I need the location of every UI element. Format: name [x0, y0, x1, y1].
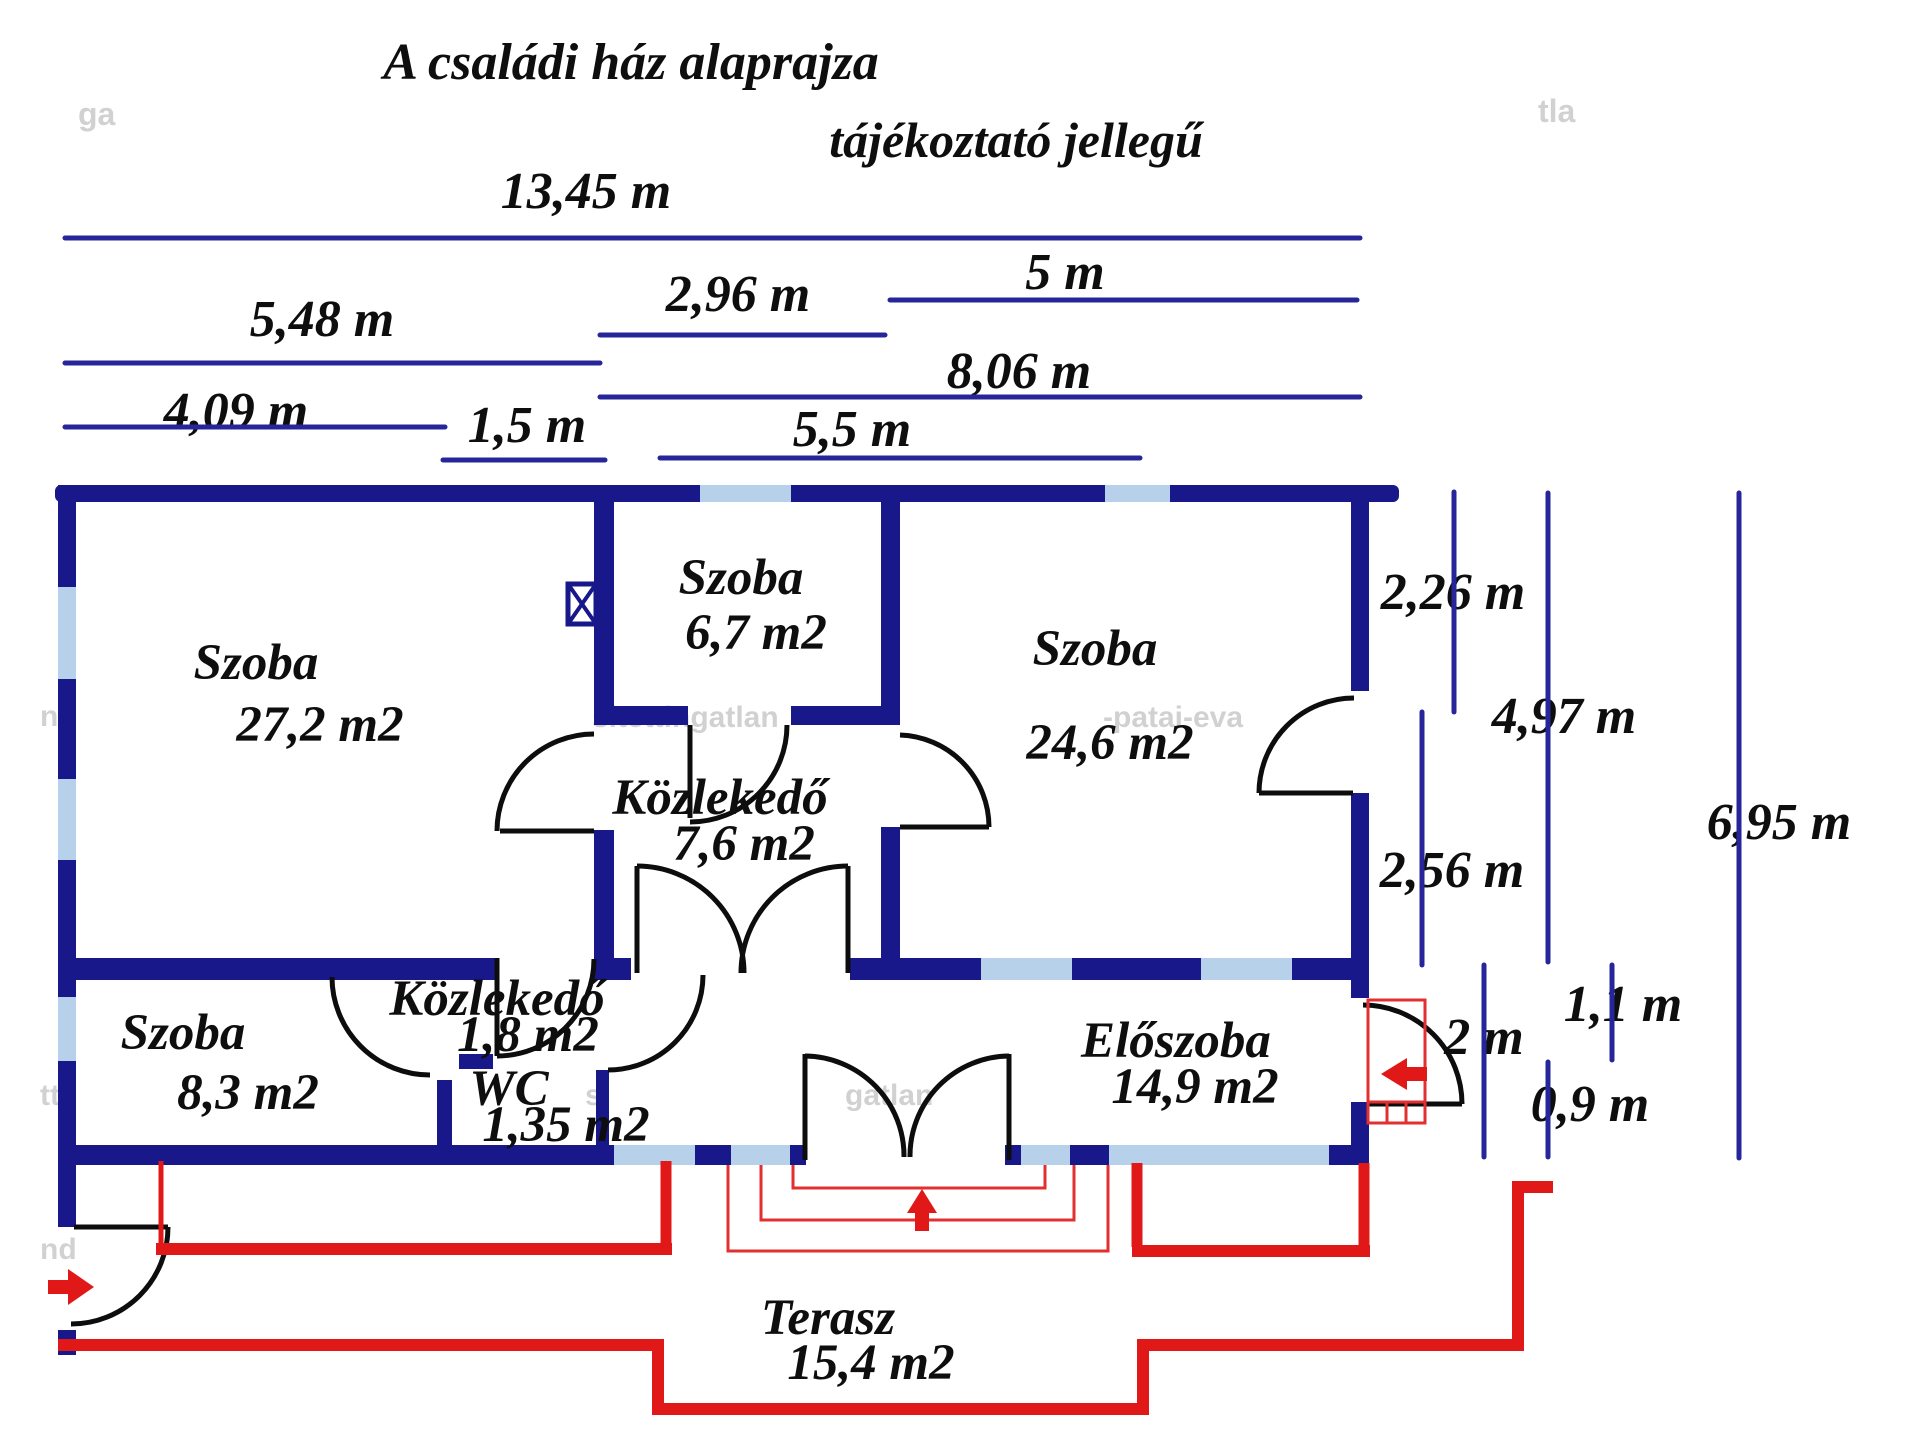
- door D2 Szoba 6,7 arc: [690, 725, 787, 822]
- door D8 Szoba 8,3 arc: [332, 977, 430, 1075]
- arrow entry left-pointing: [1381, 1058, 1427, 1090]
- arrow terrace right-pointing: [48, 1269, 94, 1305]
- svg-text:1,1 m: 1,1 m: [1564, 976, 1682, 1033]
- door D5 entry arc: [1363, 1005, 1462, 1104]
- wall divider left (27,2 / 8,3): [58, 958, 496, 980]
- wall 27,2 | 7,6 lower: [594, 830, 614, 958]
- wall right lower: [1351, 1102, 1369, 1165]
- door D4 right wall upper leaf: [1259, 791, 1353, 796]
- dimension 2,26 m line: [1452, 492, 1457, 712]
- door D9 double door left arc: [637, 866, 744, 973]
- door D5 entry leaf: [1368, 1102, 1462, 1107]
- window top-2: [1105, 485, 1170, 502]
- svg-text:5,5 m: 5,5 m: [793, 401, 911, 458]
- door D1 Szoba 27,2 leaf: [500, 829, 594, 834]
- dimension 5 m line: [890, 298, 1357, 303]
- dimension 1,1 m line: [1610, 965, 1615, 1060]
- door D7 corridor-WC arc: [608, 975, 703, 1070]
- door D4 right wall upper arc: [1259, 698, 1354, 793]
- window 24,6 bottom-2: [1201, 958, 1292, 980]
- door D9 double door right arc: [741, 866, 848, 973]
- svg-text:5,48 m: 5,48 m: [250, 291, 394, 348]
- svg-text:Szoba: Szoba: [121, 1005, 246, 1061]
- window bottom-2: [731, 1145, 790, 1165]
- wall right middle: [1351, 793, 1369, 998]
- wall top: [55, 485, 1399, 502]
- wall 24,6 bottom right: [1292, 958, 1369, 980]
- wall bottom stub-2: [1070, 1145, 1109, 1165]
- wall left lower stub: [58, 1330, 76, 1355]
- dimension 5,48 m line: [65, 361, 600, 366]
- porch left thin line: [159, 1161, 164, 1246]
- svg-text:2,56 m: 2,56 m: [1379, 842, 1524, 899]
- svg-text:4,09 m: 4,09 m: [163, 383, 308, 440]
- wall right upper: [1351, 485, 1369, 691]
- door D6 divider leaf: [495, 958, 500, 1056]
- svg-text:4,97 m: 4,97 m: [1491, 688, 1636, 745]
- svg-text:5 m: 5 m: [1025, 244, 1104, 301]
- door D10 entrance left leaf: [803, 1054, 808, 1160]
- steps entrance U3: [728, 1165, 1108, 1251]
- window left-1: [58, 587, 76, 679]
- wall divider right / Szoba 24,6 bottom: [850, 958, 981, 980]
- wall bottom segment left: [58, 1145, 614, 1165]
- dimension 0,9 m line: [1546, 1062, 1551, 1157]
- porch right bottom: [1132, 1245, 1370, 1257]
- dimension 4,09 m line: [65, 425, 445, 430]
- window symbol X-box: [568, 584, 596, 624]
- door D10 entrance right leaf: [1007, 1054, 1012, 1160]
- door D9 double door left leaf: [635, 866, 640, 973]
- wall 6,7 bottom left: [606, 706, 688, 725]
- svg-text:nd: nd: [40, 1233, 77, 1266]
- dimension 2,96 m line: [600, 333, 885, 338]
- wall 6,7 bottom right: [791, 706, 891, 725]
- svg-text:8,06 m: 8,06 m: [947, 343, 1091, 400]
- wall bottom jamb right: [1005, 1145, 1021, 1165]
- svg-text:1,8 m2: 1,8 m2: [457, 1007, 599, 1063]
- svg-text:14,9 m2: 14,9 m2: [1111, 1059, 1278, 1115]
- svg-text:ga: ga: [78, 96, 116, 132]
- wall WC left: [437, 1080, 452, 1145]
- svg-text:A családi ház alaprajza: A családi ház alaprajza: [380, 34, 879, 91]
- wall 24,6 bottom mid: [1072, 958, 1201, 980]
- wall WC right: [596, 1070, 609, 1145]
- porch right right side: [1359, 1163, 1370, 1247]
- svg-text:tájékoztató jellegű: tájékoztató jellegű: [829, 112, 1205, 168]
- dimension 5,5 m line: [660, 456, 1140, 461]
- svg-text:15,4 m2: 15,4 m2: [787, 1335, 954, 1391]
- door D3 Szoba 24,6 leaf: [900, 825, 989, 830]
- dimension 8,06 m line: [600, 395, 1360, 400]
- door D9 double door right leaf: [846, 866, 851, 973]
- wall bottom stub-1: [695, 1145, 731, 1165]
- door D11 terrace leaf: [74, 1225, 168, 1230]
- wall bottom right corner: [1329, 1145, 1369, 1165]
- svg-text:27,2 m2: 27,2 m2: [235, 697, 403, 753]
- terrace outline: [58, 1187, 1553, 1409]
- wall divider junction: [594, 958, 631, 980]
- window top-1: [700, 485, 791, 502]
- door D3 Szoba 24,6 arc: [900, 735, 989, 827]
- dimension 6,95 m line: [1737, 493, 1742, 1158]
- door D10 entrance right arc: [910, 1056, 1009, 1157]
- dimension 4,97 m line: [1546, 493, 1551, 962]
- window left-3: [58, 997, 76, 1061]
- door D11 terrace arc: [71, 1227, 168, 1324]
- dimension 2,56 m line: [1420, 712, 1425, 965]
- wall bottom jamb left: [790, 1145, 806, 1165]
- wall 27,2 | 7,6 upper: [594, 496, 614, 725]
- window bottom-1: [614, 1145, 695, 1165]
- wall WC stub: [459, 1054, 493, 1069]
- porch right left side: [1132, 1163, 1143, 1247]
- svg-text:1,5 m: 1,5 m: [468, 397, 586, 454]
- porch left right side: [661, 1161, 672, 1245]
- svg-text:7,6 m2: 7,6 m2: [673, 816, 815, 872]
- window left-2: [58, 779, 76, 860]
- svg-text:6,7 m2: 6,7 m2: [685, 605, 827, 661]
- watermark fragments: [40, 93, 1576, 1266]
- dimension 2 m line: [1482, 965, 1487, 1157]
- svg-text:tla: tla: [1538, 93, 1576, 129]
- svg-text:6,95 m: 6,95 m: [1707, 794, 1851, 851]
- steps entrance U2: [761, 1165, 1074, 1220]
- porch left bottom: [156, 1243, 672, 1255]
- svg-text:tt: tt: [40, 1079, 60, 1112]
- window bottom-3: [1021, 1145, 1070, 1165]
- door D1 Szoba 27,2 arc: [497, 734, 594, 831]
- svg-text:Szoba: Szoba: [194, 635, 319, 691]
- svg-text:24,6 m2: 24,6 m2: [1025, 715, 1193, 771]
- wall 7,6 | 24,6 upper: [881, 496, 900, 725]
- wall 7,6 | 24,6 lower: [881, 827, 900, 958]
- svg-text:8,3 m2: 8,3 m2: [177, 1065, 319, 1121]
- svg-text:Szoba: Szoba: [1033, 621, 1158, 677]
- window bottom-4: [1109, 1145, 1329, 1165]
- steps entrance U1: [793, 1165, 1045, 1188]
- dimension 13,45 m line: [65, 236, 1360, 241]
- door D10 entrance left arc: [805, 1056, 904, 1157]
- svg-text:2,96 m: 2,96 m: [665, 266, 810, 323]
- steps entry staircase: [1368, 1000, 1425, 1123]
- wall left: [58, 485, 76, 1227]
- dimension 1,5 m line: [443, 458, 605, 463]
- svg-text:1,35 m2: 1,35 m2: [482, 1097, 649, 1153]
- svg-text:13,45 m: 13,45 m: [501, 163, 671, 220]
- svg-text:Szoba: Szoba: [679, 550, 804, 606]
- door D6 divider arc: [497, 959, 594, 1056]
- door D2 Szoba 6,7 leaf: [688, 725, 693, 818]
- arrow entrance up-pointing: [907, 1189, 937, 1231]
- window 24,6 bottom-1: [981, 958, 1072, 980]
